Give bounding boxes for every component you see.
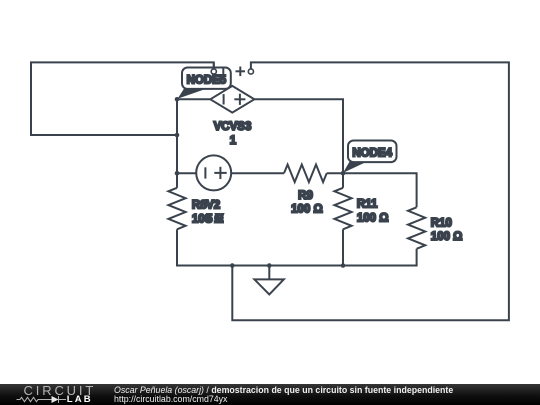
wire: [342, 229, 344, 265]
resistor R9: [284, 165, 327, 216]
wire: [327, 172, 343, 174]
wire: [232, 62, 509, 320]
node NODE4 callout: [343, 141, 397, 173]
svg-text:100 Ω: 100 Ω: [291, 204, 323, 216]
svg-text:100 Ω: 100 Ω: [431, 231, 463, 243]
svg-text:100 Ω: 100 Ω: [357, 213, 389, 225]
wire: [177, 99, 210, 188]
wire: [343, 173, 417, 207]
svg-text:V2: V2: [206, 199, 220, 211]
junction dots: [175, 97, 346, 268]
svg-text:5 V: 5 V: [206, 213, 224, 225]
svg-text:LAB: LAB: [67, 394, 93, 405]
svg-text:R8: R8: [192, 199, 207, 211]
wire: [176, 229, 178, 266]
node NODE5 callout: [178, 68, 231, 99]
ground: [254, 266, 283, 295]
svg-text:1: 1: [230, 135, 237, 147]
VCVS3 input terminal + (plus): [236, 67, 254, 77]
dependent source VCVS3 (diamond): [210, 86, 254, 147]
wire: [342, 173, 344, 188]
svg-text:R10: R10: [431, 217, 452, 229]
wire: [254, 99, 343, 173]
footer bar: [0, 384, 540, 405]
svg-text:NODE4: NODE4: [352, 148, 392, 160]
wire: [31, 62, 214, 135]
svg-text:NODE5: NODE5: [187, 75, 227, 87]
svg-text:R11: R11: [357, 198, 378, 210]
svg-text:VCVS3: VCVS3: [214, 121, 252, 133]
svg-text:R9: R9: [298, 190, 313, 202]
resistor R11: [334, 188, 388, 230]
voltage source V2: [196, 155, 231, 225]
resistor R10: [408, 207, 462, 249]
wire: [176, 265, 418, 267]
wire: [416, 249, 418, 266]
wire: [231, 172, 284, 174]
CircuitLab logo: [0, 384, 110, 405]
VCVS3 input terminal - (minus): [211, 63, 223, 77]
resistor R8: [168, 188, 223, 230]
wire: [177, 172, 196, 174]
